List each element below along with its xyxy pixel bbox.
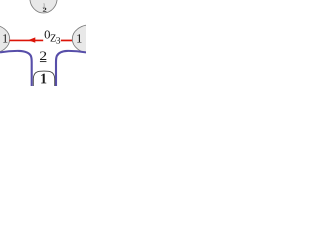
- label 0Z3 (edge label on white box): [45, 29, 61, 44]
- wire (right slate-blue curved edge): [56, 51, 86, 86]
- node S0 (top state ellipse): [30, 0, 57, 13]
- node 1 (bottom state, white dome clipped at bottom edge): [33, 71, 54, 86]
- label 1 (right state digit): [77, 34, 81, 42]
- node 1 (right state ellipse, clipped at right edge): [72, 25, 108, 53]
- label 2 (center edge label with underline on white box): [39, 46, 47, 67]
- arrowhead (red, pointing left): [28, 37, 35, 42]
- node 1 (left state ellipse, clipped at left edge): [0, 25, 10, 53]
- wire (red edge, right segment from label to right state): [61, 39, 72, 41]
- wire (red edge, left segment from left state to gap): [10, 39, 44, 41]
- label 1/2 (tiny fraction inside top state): [43, 3, 47, 11]
- wire (left slate-blue curved edge): [0, 51, 32, 86]
- label 1 (left state digit): [3, 34, 7, 42]
